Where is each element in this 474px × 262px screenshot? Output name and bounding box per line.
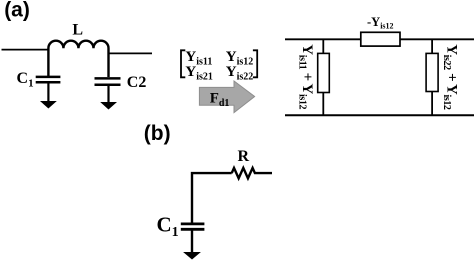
- matrix bracket left: [181, 50, 185, 77]
- matrix bracket right: [253, 50, 257, 77]
- arrow Fd1: [199, 81, 254, 113]
- admittance box Yis11+Yis12: [318, 53, 330, 92]
- wire bottom (right circuit): [285, 114, 474, 116]
- svg-text:C1: C1: [157, 212, 179, 240]
- svg-text:-Yis12: -Yis12: [367, 15, 394, 31]
- wire right shunt branch: [431, 39, 433, 115]
- capacitor C2: [95, 78, 121, 102]
- svg-text:Yis11 + Yis12: Yis11 + Yis12: [297, 44, 315, 109]
- ground under C1: [40, 101, 57, 109]
- ground under C2: [100, 102, 117, 110]
- svg-text:C1: C1: [17, 70, 34, 90]
- ground (b): [183, 252, 201, 260]
- box -Yis12 (series): [361, 32, 400, 46]
- capacitor C1: [36, 77, 61, 102]
- svg-text:L: L: [72, 21, 83, 38]
- capacitor C1 (b): [181, 224, 205, 253]
- wire right of inductor (a): [109, 52, 153, 54]
- wire left shunt branch: [322, 39, 324, 115]
- resistor R: [232, 168, 272, 178]
- wire left input (a): [2, 49, 49, 51]
- svg-text:(a): (a): [4, 0, 30, 21]
- wire top (right circuit): [285, 38, 474, 40]
- wire horizontal (b): [192, 173, 232, 222]
- svg-text:Yis22 + Yis12: Yis22 + Yis12: [441, 44, 459, 110]
- svg-text:(b): (b): [144, 122, 171, 145]
- admittance box Yis22+Yis12: [426, 53, 438, 91]
- svg-text:C2: C2: [127, 74, 147, 91]
- inductor L: [48, 41, 108, 77]
- svg-text:R: R: [238, 148, 250, 165]
